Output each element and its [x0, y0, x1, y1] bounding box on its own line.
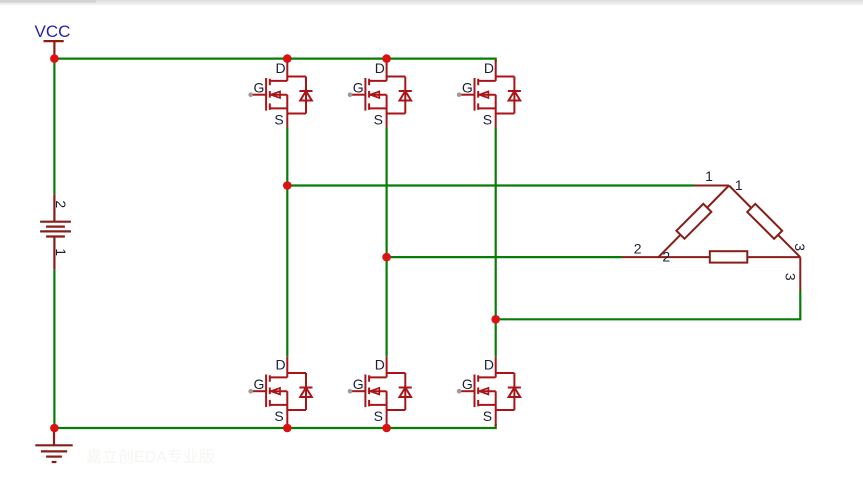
svg-text:嘉立创EDA专业版: 嘉立创EDA专业版: [86, 448, 215, 466]
svg-text:2: 2: [634, 241, 642, 257]
svg-text:2: 2: [662, 249, 670, 265]
svg-text:2: 2: [53, 200, 69, 208]
svg-text:1: 1: [53, 248, 69, 256]
svg-text:1: 1: [705, 168, 713, 184]
svg-text:1: 1: [735, 177, 743, 193]
svg-text:3: 3: [782, 273, 798, 281]
svg-text:3: 3: [792, 243, 808, 251]
svg-text:VCC: VCC: [35, 22, 71, 41]
